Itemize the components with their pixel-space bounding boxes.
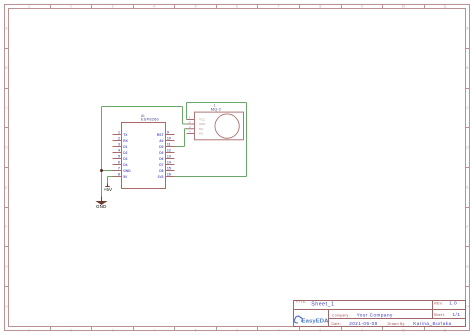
svg-text:B: B — [5, 66, 7, 70]
svg-text:B: B — [466, 66, 468, 70]
svg-text:D6: D6 — [159, 157, 163, 161]
svg-text:8: 8 — [118, 173, 120, 177]
svg-text:Sheet:: Sheet: — [434, 313, 445, 317]
svg-text:10: 10 — [167, 137, 171, 141]
U1 left pin numbers 1-8 — [118, 131, 120, 177]
svg-text:Sheet_1: Sheet_1 — [311, 302, 334, 308]
svg-text:10: 10 — [402, 5, 406, 9]
svg-text:4: 4 — [153, 5, 155, 9]
title block — [294, 301, 466, 327]
svg-text:1.0: 1.0 — [449, 301, 457, 306]
MQ-2 pin numbers 1-4 — [189, 116, 191, 134]
svg-text:11: 11 — [443, 329, 447, 333]
svg-text:GND: GND — [96, 204, 107, 209]
svg-text:5: 5 — [195, 329, 197, 333]
svg-text:D0: D0 — [159, 145, 163, 149]
svg-text:9: 9 — [167, 131, 169, 135]
wire GND net: down to MQ-2 GND pin — [182, 107, 184, 125]
wire 5V net: U1 pin 8 to corner — [108, 176, 113, 178]
svg-text:A0: A0 — [159, 139, 163, 143]
svg-text:GND: GND — [123, 169, 131, 173]
MQ-2 pin names — [199, 118, 205, 136]
wire D0 net: U1 pin 11 horizontal — [175, 146, 185, 148]
svg-text:13: 13 — [167, 155, 171, 159]
svg-text:Date:: Date: — [332, 322, 342, 326]
IC U1 : ESP8266 module symbol — [113, 114, 175, 189]
svg-text:11: 11 — [443, 5, 447, 9]
wire D0 net: stub to MQ-2 DO pin 3 — [185, 128, 188, 130]
wire GND net: stub to MQ-2 pin 2 — [183, 123, 188, 125]
svg-text:VCC: VCC — [199, 118, 205, 122]
svg-text:D5: D5 — [159, 151, 163, 155]
svg-text:RX: RX — [123, 139, 128, 143]
svg-text:7: 7 — [118, 167, 120, 171]
wire 5V net: down to +5V flag — [107, 177, 109, 184]
svg-text:Karina_Burlaka: Karina_Burlaka — [413, 321, 451, 326]
svg-text:D3: D3 — [123, 157, 127, 161]
svg-text:RST: RST — [157, 133, 164, 137]
wire GND net: junction to U1 pin 7 — [102, 170, 113, 172]
wire 3V3 net: right vertical up — [246, 103, 248, 177]
svg-text:5: 5 — [195, 5, 197, 9]
wire GND net: top horizontal — [102, 106, 183, 108]
svg-text:2: 2 — [118, 137, 120, 141]
MQ-2 body outline — [195, 112, 244, 140]
U1 body outline — [122, 123, 166, 189]
U1 left pins 1-8 — [113, 135, 122, 177]
svg-text:15: 15 — [167, 167, 171, 171]
EasyEDA logo — [294, 316, 329, 324]
U1 right pin names — [157, 133, 164, 179]
wire D0 net: vertical up — [184, 129, 186, 147]
svg-text:6: 6 — [236, 329, 238, 333]
svg-text:D8: D8 — [159, 169, 163, 173]
svg-text:4: 4 — [153, 329, 155, 333]
svg-text:7: 7 — [278, 329, 280, 333]
wire 3V3 net: top horizontal leftwards — [187, 102, 247, 104]
svg-text:2: 2 — [70, 329, 72, 333]
svg-text:2: 2 — [70, 5, 72, 9]
svg-text:D1: D1 — [123, 145, 127, 149]
svg-text:TITLE:: TITLE: — [295, 300, 306, 304]
sensor module MQ-2 (designator 1) — [187, 104, 244, 140]
svg-text:ESP8266: ESP8266 — [141, 116, 159, 121]
MQ-2 sensor circle — [215, 114, 239, 138]
svg-text:6: 6 — [118, 161, 120, 165]
svg-text:2021-06-08: 2021-06-08 — [349, 321, 378, 326]
svg-text:3: 3 — [112, 5, 114, 9]
svg-text:6: 6 — [236, 5, 238, 9]
wire 3V3 net: down to MQ-2 VCC pin 1 — [186, 103, 188, 120]
svg-text:8: 8 — [319, 329, 321, 333]
svg-text:4: 4 — [118, 149, 120, 153]
wire GND net: junction down to GND symbol — [101, 171, 103, 197]
power flag +5V — [104, 184, 113, 193]
svg-text:8: 8 — [319, 5, 321, 9]
svg-text:3V3: 3V3 — [158, 175, 164, 179]
svg-text:11: 11 — [167, 143, 171, 147]
MQ-2 pins 1-4 — [187, 120, 195, 134]
svg-text:D4: D4 — [123, 163, 127, 167]
wire GND net: junction up vertical — [101, 107, 103, 171]
svg-text:EasyEDA: EasyEDA — [302, 319, 330, 325]
svg-text:10: 10 — [402, 329, 406, 333]
svg-text:1/1: 1/1 — [453, 312, 461, 317]
svg-text:D7: D7 — [159, 163, 163, 167]
svg-text:9: 9 — [361, 329, 363, 333]
svg-text:F: F — [467, 225, 469, 229]
svg-text:16: 16 — [167, 173, 171, 177]
svg-text:14: 14 — [167, 161, 171, 165]
svg-text:7: 7 — [278, 5, 280, 9]
U1 right pins 9-16 — [166, 135, 175, 177]
wire 3V3 net: U1 pin 16 horizontal — [175, 176, 247, 178]
U1 left pin names — [123, 133, 131, 179]
svg-text:12: 12 — [167, 149, 171, 153]
svg-text:1: 1 — [118, 131, 120, 135]
svg-text:E: E — [5, 185, 7, 189]
svg-text:E: E — [466, 185, 468, 189]
svg-text:GND: GND — [199, 122, 205, 126]
svg-text:F: F — [6, 225, 8, 229]
U1 right pin numbers 9-16 — [167, 131, 171, 177]
svg-text:3: 3 — [118, 143, 120, 147]
svg-text:Drawn By:: Drawn By: — [388, 322, 406, 326]
svg-text:5: 5 — [118, 155, 120, 159]
svg-text:3: 3 — [112, 329, 114, 333]
svg-text:Your Company: Your Company — [357, 312, 393, 317]
svg-text:Company:: Company: — [332, 313, 350, 317]
svg-text:+5V: +5V — [104, 187, 113, 192]
svg-text:REV:: REV: — [434, 302, 443, 306]
svg-text:1: 1 — [28, 5, 30, 9]
junction at GND node — [100, 169, 103, 172]
svg-text:1: 1 — [28, 329, 30, 333]
ground symbol GND — [95, 197, 107, 209]
svg-text:D2: D2 — [123, 151, 127, 155]
svg-text:9: 9 — [361, 5, 363, 9]
svg-text:MQ-2: MQ-2 — [211, 107, 221, 112]
